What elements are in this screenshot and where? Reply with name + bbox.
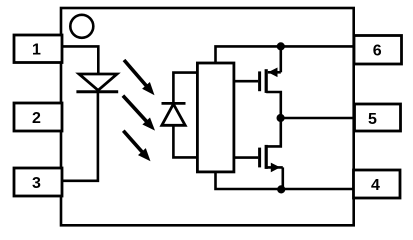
svg-text:4: 4 bbox=[371, 177, 380, 194]
svg-text:2: 2 bbox=[32, 110, 41, 127]
svg-text:1: 1 bbox=[32, 42, 41, 59]
svg-text:6: 6 bbox=[373, 42, 382, 59]
svg-text:5: 5 bbox=[368, 111, 377, 128]
svg-text:3: 3 bbox=[32, 175, 41, 192]
